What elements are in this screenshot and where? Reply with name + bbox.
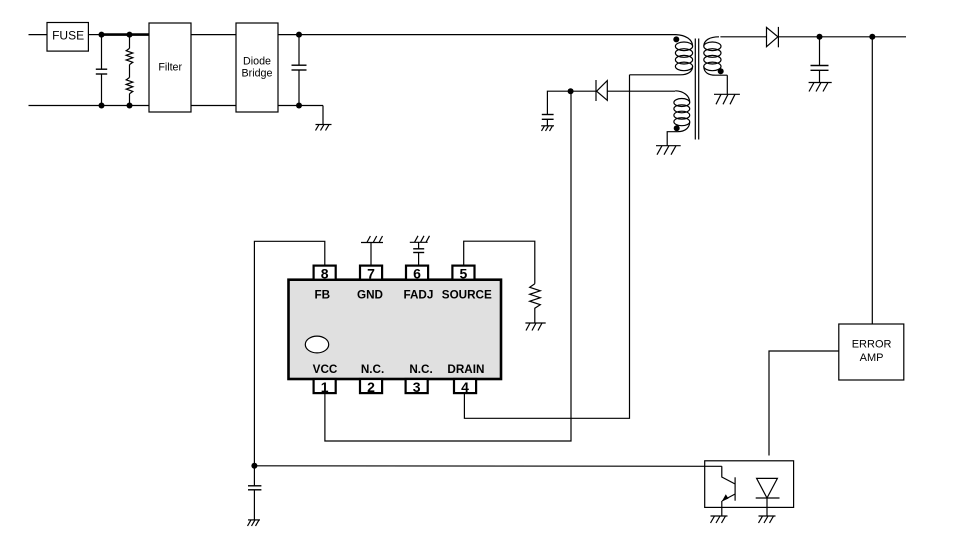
- pin 1 marker ellipse: [305, 336, 328, 353]
- resistor R2: [126, 78, 133, 106]
- wire output to error amp: [871, 37, 873, 324]
- transformer T1 aux winding: [667, 91, 690, 146]
- capacitor C2 bulk: [292, 35, 307, 106]
- filter block: [149, 23, 191, 112]
- wire error amp to opto: [769, 351, 839, 456]
- pin 8 feedback wire: [254, 241, 324, 465]
- pin 6 box: [406, 266, 428, 280]
- capacitor C3 output: [811, 37, 829, 83]
- svg-text:3: 3: [413, 379, 421, 395]
- svg-text:DRAIN: DRAIN: [447, 363, 484, 376]
- svg-text:Bridge: Bridge: [242, 67, 273, 79]
- pin 2 box: [360, 379, 382, 393]
- svg-text:SOURCE: SOURCE: [442, 288, 492, 301]
- svg-text:AMP: AMP: [860, 352, 884, 364]
- pin 1 vcc wire: [325, 91, 571, 441]
- svg-text:8: 8: [321, 265, 329, 281]
- capacitor C1: [96, 35, 107, 106]
- transformer T1 secondary winding: [704, 37, 728, 75]
- wire output rail: [778, 36, 906, 38]
- transformer core: [695, 39, 698, 140]
- pin 5 box: [452, 266, 474, 280]
- capacitor C4 vcc snubber: [542, 91, 571, 126]
- pin 7 box: [360, 266, 382, 280]
- transformer T1 primary winding: [666, 35, 693, 75]
- node dot vcc: [568, 88, 574, 94]
- diode D2 output: [767, 27, 779, 47]
- resistor R1: [126, 35, 133, 65]
- wire bridge bottom to cap: [278, 105, 323, 107]
- optocoupler U2 box: [705, 461, 794, 508]
- svg-text:N.C.: N.C.: [361, 363, 384, 376]
- svg-text:Diode: Diode: [243, 55, 271, 67]
- pin 1 box: [314, 379, 336, 393]
- wire feedback rail to opto: [254, 465, 721, 468]
- svg-text:6: 6: [413, 265, 421, 281]
- wire fuse to node: [88, 34, 102, 36]
- capacitor C5: [248, 466, 261, 520]
- wire secondary to output diode: [720, 36, 766, 38]
- wire AC line top-left: [29, 34, 48, 36]
- pin 6 capacitor C6 and ground: [410, 236, 430, 266]
- node dots C2: [296, 32, 302, 109]
- wire R1 to R2: [129, 65, 131, 78]
- wire secondary bottom to ground: [726, 75, 728, 94]
- polarity dot aux: [674, 125, 680, 131]
- wire primary bottom to drain line: [630, 74, 667, 76]
- polarity dot primary: [673, 36, 679, 42]
- pin 7 ground: [361, 236, 383, 266]
- ground output cap: [809, 83, 832, 92]
- svg-text:Filter: Filter: [158, 62, 182, 74]
- diode bridge block: [236, 23, 278, 112]
- diode D1 vcc: [571, 80, 676, 101]
- phototransistor Q1: [722, 466, 735, 516]
- error amp block: [839, 324, 904, 380]
- svg-text:7: 7: [367, 265, 375, 281]
- pin 3 box: [406, 379, 428, 393]
- svg-text:VCC: VCC: [313, 363, 338, 376]
- pin 8 box: [314, 266, 336, 280]
- ground C5: [248, 520, 261, 526]
- wire bold node to filter: [102, 33, 150, 36]
- svg-text:2: 2: [367, 379, 375, 395]
- ground C4: [541, 126, 554, 131]
- pin 4 drain wire: [464, 75, 629, 419]
- node junction dots input: [99, 32, 133, 109]
- wire AC line bottom-left: [29, 105, 150, 107]
- LED D3 opto: [756, 478, 780, 516]
- svg-text:5: 5: [460, 265, 468, 281]
- text labels: [52, 29, 84, 43]
- polarity dot secondary: [718, 68, 724, 74]
- svg-text:4: 4: [461, 379, 469, 395]
- wire filter to bridge bottom: [191, 105, 236, 107]
- svg-text:GND: GND: [357, 288, 383, 301]
- ground opto LED: [759, 516, 776, 523]
- svg-text:FUSE: FUSE: [52, 29, 84, 43]
- ground R3: [525, 323, 545, 331]
- svg-text:FADJ: FADJ: [403, 288, 433, 301]
- ground primary rail: [316, 106, 332, 131]
- svg-text:1: 1: [321, 379, 329, 395]
- pin 5 source wire: [464, 241, 535, 284]
- ground secondary: [714, 94, 740, 104]
- svg-text:N.C.: N.C.: [409, 363, 432, 376]
- ground opto transistor: [711, 516, 728, 523]
- wire filter to bridge top: [191, 34, 236, 36]
- pin 4 box: [454, 379, 476, 393]
- svg-text:FB: FB: [315, 288, 331, 301]
- node dots output: [817, 34, 876, 40]
- svg-text:ERROR: ERROR: [852, 339, 892, 351]
- IC U1 body: [289, 280, 502, 379]
- resistor R3 source: [530, 284, 541, 323]
- node dot vcc cap: [251, 463, 257, 469]
- wire bridge to transformer top: [278, 34, 676, 36]
- ground aux winding: [656, 146, 681, 155]
- fuse F1 box: [47, 23, 88, 52]
